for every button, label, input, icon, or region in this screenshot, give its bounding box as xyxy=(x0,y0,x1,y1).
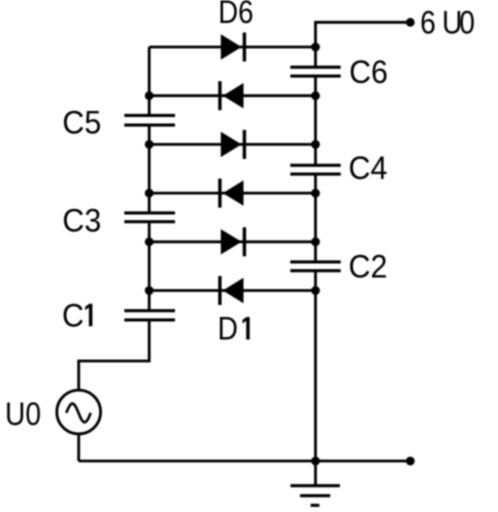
capacitor C4 xyxy=(290,165,340,174)
terminal dot output 6 U0 xyxy=(406,18,415,27)
junction dot right rail row 1 xyxy=(311,43,320,52)
wire left rail C5 to C3 xyxy=(148,125,151,213)
svg-text:6: 6 xyxy=(420,6,436,41)
junction dot left rail row 4 xyxy=(145,189,154,198)
wire right rail C2 to bottom rail xyxy=(314,271,317,461)
wire row 1 (D6 row) xyxy=(149,46,315,49)
label C1 digit 1 xyxy=(85,304,92,327)
capacitor C2 xyxy=(290,262,340,271)
svg-text:C5: C5 xyxy=(62,105,101,141)
wire row 5 xyxy=(149,240,315,243)
AC source U0 xyxy=(57,390,101,434)
capacitor C6 xyxy=(290,67,340,76)
junction dot right rail row 4 xyxy=(311,189,320,198)
diode D4 (row 3, pointing right) xyxy=(221,130,246,159)
diode D3 (row 4, pointing left) xyxy=(218,179,243,208)
wire right rail row 1 to C6 xyxy=(314,47,317,67)
svg-text:C2: C2 xyxy=(349,249,388,285)
svg-text:C4: C4 xyxy=(349,150,388,186)
junction dot bottom rail xyxy=(311,457,320,466)
capacitor C1 xyxy=(124,311,175,320)
junction dot right rail row 3 xyxy=(311,140,320,149)
wire row 2 xyxy=(149,94,315,97)
svg-text:C: C xyxy=(62,298,84,334)
junction dot left rail row 3 xyxy=(145,140,154,149)
wire top output from right rail to 6U0 terminal xyxy=(316,22,411,47)
wire right rail C6 to C4 xyxy=(314,76,317,165)
diode D6 (row 1, pointing right) xyxy=(221,33,246,62)
capacitor C5 xyxy=(124,115,175,125)
wire bottom rail to terminal xyxy=(79,460,411,463)
svg-text:C3: C3 xyxy=(62,203,101,239)
svg-text:C6: C6 xyxy=(349,54,388,90)
junction dot left rail row 5 xyxy=(145,237,154,246)
junction dot left rail row 2 xyxy=(145,91,154,100)
junction dot right rail row 6 xyxy=(311,286,320,295)
svg-text:D: D xyxy=(218,312,238,347)
svg-text:0: 0 xyxy=(459,6,475,41)
junction dot right rail row 5 xyxy=(311,237,320,246)
svg-text:D6: D6 xyxy=(218,0,253,31)
junction dot left rail row 6 xyxy=(145,286,154,295)
ground xyxy=(291,461,340,505)
diode D1 (row 6, pointing left) xyxy=(218,276,243,305)
junction dot right rail row 2 xyxy=(311,91,320,100)
wire source U0 bottom to bottom rail xyxy=(77,434,80,461)
wire left rail from row 1 down to C5 xyxy=(148,47,151,115)
wire left rail C1 down and over to source U0 xyxy=(79,320,150,390)
wire row 4 xyxy=(149,192,315,195)
terminal dot bottom right xyxy=(406,457,415,466)
wire row 6 (D1 row) xyxy=(149,289,315,292)
diode D5 (row 2, pointing left) xyxy=(218,81,243,110)
wire left rail C3 to C1 xyxy=(148,222,151,311)
wire row 3 xyxy=(149,143,315,146)
svg-text:U0: U0 xyxy=(5,397,41,432)
diode D2 (row 5, pointing right) xyxy=(221,227,246,256)
capacitor C3 xyxy=(124,213,175,222)
label D1 digit 1 xyxy=(243,317,250,340)
wire right rail C4 to C2 xyxy=(314,174,317,262)
